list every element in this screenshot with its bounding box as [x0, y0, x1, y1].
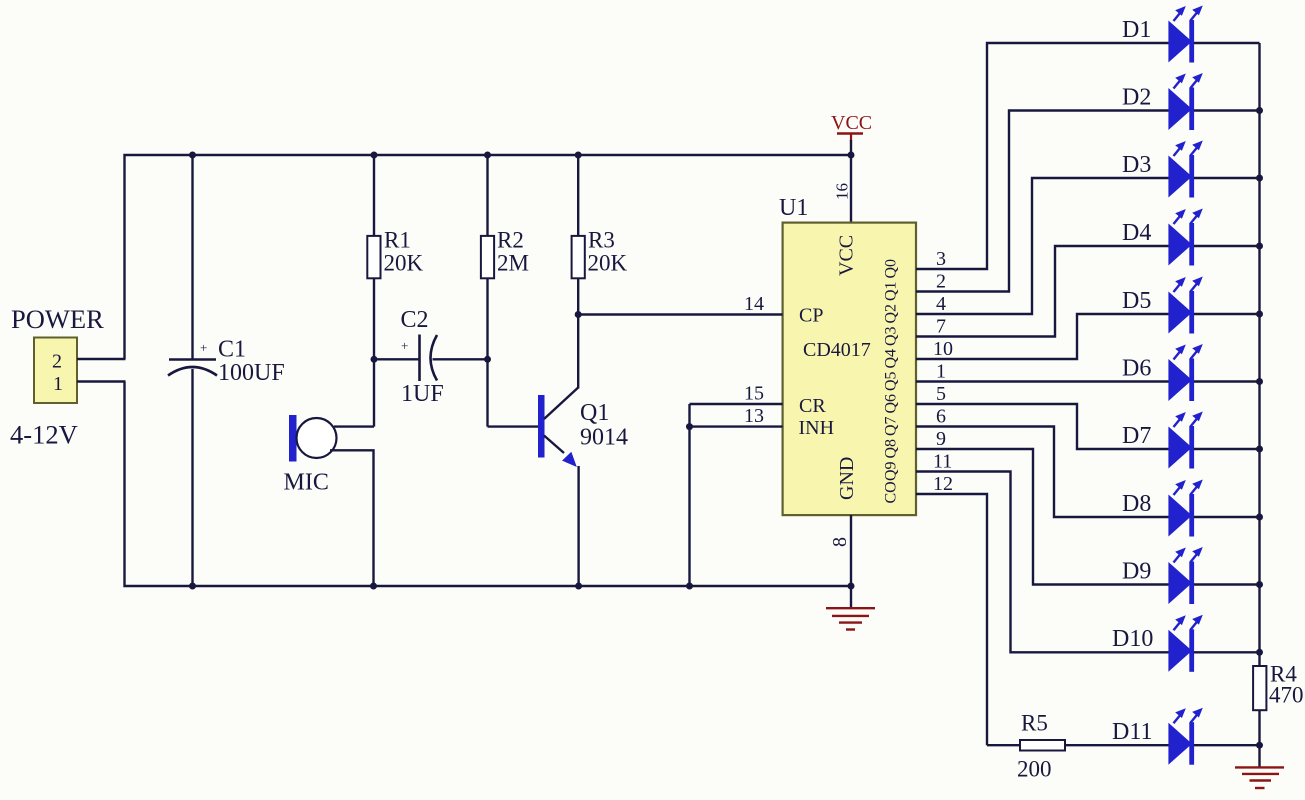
svg-text:12: 12 — [933, 473, 953, 495]
wire IC pin 3 to LED row — [916, 43, 1169, 269]
svg-text:3: 3 — [936, 248, 946, 270]
junction R3 / CP wire — [575, 311, 582, 318]
junction rail / D11 — [1256, 742, 1263, 749]
wire INH pin13 — [690, 425, 783, 427]
svg-text:R3: R3 — [588, 228, 615, 253]
svg-text:7: 7 — [936, 316, 946, 338]
svg-text:Q3: Q3 — [883, 326, 900, 346]
wire pin12 to R5 — [987, 744, 1021, 746]
wire C1 bottom lead — [191, 369, 193, 586]
svg-text:9014: 9014 — [580, 425, 628, 451]
LED D1 — [1168, 6, 1202, 63]
junction C2 right / R2 branch — [484, 356, 491, 363]
LED D6 — [1168, 344, 1202, 401]
wire IC pin 9 to LED row — [916, 449, 1169, 585]
junction ground rail / MIC — [370, 583, 377, 590]
capacitor C1 top plate — [169, 358, 216, 361]
wire D8 cathode to rail — [1194, 516, 1260, 518]
svg-text:C1: C1 — [218, 337, 246, 363]
svg-text:14: 14 — [744, 293, 764, 315]
IC U1 body — [783, 223, 916, 515]
wire POWER pin1 to ground rail — [77, 380, 126, 382]
svg-text:R5: R5 — [1021, 711, 1048, 736]
svg-text:D1: D1 — [1122, 17, 1151, 43]
wire IC pin 10 to LED row — [916, 314, 1169, 359]
junction top rail / R3 — [575, 152, 582, 159]
wire D9 cathode to rail — [1194, 583, 1260, 585]
wire IC pin 11 to LED row — [916, 472, 1169, 653]
LED D10 — [1168, 615, 1202, 672]
svg-text:4: 4 — [936, 293, 946, 315]
ground symbol at IC — [826, 608, 875, 629]
wire D4 cathode to rail — [1194, 245, 1260, 247]
wire CR/INH to ground rail — [688, 404, 690, 586]
svg-text:VCC: VCC — [831, 112, 872, 134]
svg-text:CP: CP — [799, 305, 823, 327]
wire MIC top lead — [334, 425, 374, 427]
wire D1 cathode to rail — [1194, 42, 1260, 44]
junction ground rail / CR-INH — [686, 583, 693, 590]
junction rail / D6 — [1256, 378, 1263, 385]
junction top rail / VCC — [848, 152, 855, 159]
svg-text:Q7: Q7 — [883, 416, 900, 436]
svg-text:D10: D10 — [1112, 626, 1153, 652]
capacitor C2 left plate — [418, 335, 421, 382]
svg-text:Q4: Q4 — [883, 349, 900, 369]
svg-text:D2: D2 — [1122, 84, 1151, 110]
svg-text:2: 2 — [52, 351, 62, 373]
svg-text:+: + — [401, 338, 408, 353]
transistor Q1 collector — [544, 388, 578, 420]
LED D11 — [1168, 708, 1202, 765]
resistor R5 body — [1020, 740, 1065, 751]
svg-text:D5: D5 — [1122, 288, 1151, 314]
power VCC bar — [837, 132, 863, 135]
wire Q1 base from R2 — [488, 425, 540, 427]
svg-text:GND: GND — [836, 457, 858, 500]
svg-text:13: 13 — [744, 405, 764, 427]
ground symbol bottom right — [1235, 767, 1284, 788]
svg-text:D8: D8 — [1122, 491, 1151, 517]
svg-text:D6: D6 — [1122, 355, 1151, 381]
resistor R4 body — [1253, 666, 1266, 710]
LED D3 — [1168, 141, 1202, 198]
wire MIC bottom lead — [330, 450, 374, 586]
junction top rail / C1 — [189, 152, 196, 159]
svg-text:Q9: Q9 — [883, 461, 900, 481]
LED D9 — [1168, 547, 1202, 604]
svg-text:CD4017: CD4017 — [803, 339, 871, 361]
wire D11 cathode to rail — [1194, 744, 1260, 746]
resistor R2 body — [481, 236, 494, 278]
wire LED common cathode rail — [1258, 43, 1260, 767]
svg-text:CR: CR — [799, 395, 826, 417]
junction rail / D8 — [1256, 514, 1263, 521]
svg-text:6: 6 — [936, 406, 946, 428]
wire IC pin 12 to LED row — [916, 494, 987, 745]
svg-text:11: 11 — [933, 451, 952, 473]
wire CR pin15 — [690, 403, 783, 405]
svg-text:Q6: Q6 — [883, 394, 900, 414]
junction C2 left / R1 branch — [371, 356, 378, 363]
svg-text:U1: U1 — [779, 195, 808, 221]
resistor R1 body — [367, 236, 380, 278]
svg-text:C2: C2 — [401, 307, 429, 333]
wire IC pin 7 to LED row — [916, 246, 1169, 337]
junction rail / D2 — [1256, 107, 1263, 114]
svg-text:POWER: POWER — [11, 304, 104, 334]
connector J1 POWER body — [34, 338, 77, 404]
junction ground rail / Q1 emitter — [575, 583, 582, 590]
wire C2 left lead — [374, 358, 420, 360]
svg-text:Q2: Q2 — [883, 304, 900, 324]
wire D2 cathode to rail — [1194, 109, 1260, 111]
svg-text:+: + — [200, 340, 207, 355]
wire R1 branch vertical — [373, 155, 375, 427]
LED D7 — [1168, 412, 1202, 469]
wire IC pin8 GND — [850, 515, 852, 608]
svg-text:15: 15 — [744, 383, 764, 405]
wire C1 top lead — [191, 155, 193, 360]
svg-text:INH: INH — [799, 417, 835, 439]
svg-text:2: 2 — [936, 271, 946, 293]
svg-text:D9: D9 — [1122, 558, 1151, 584]
wire R3 branch vertical — [577, 155, 579, 389]
svg-text:D7: D7 — [1122, 423, 1151, 449]
svg-text:R1: R1 — [384, 228, 411, 253]
wire D3 cathode to rail — [1194, 177, 1260, 179]
svg-text:20K: 20K — [588, 251, 628, 276]
svg-text:Q5: Q5 — [883, 371, 900, 391]
junction rail / D10 — [1256, 649, 1263, 656]
junction top rail / R2 — [484, 152, 491, 159]
svg-text:1UF: 1UF — [401, 381, 444, 407]
wire bottom ground rail — [125, 382, 852, 587]
wire R2 branch vertical — [486, 155, 488, 427]
transistor Q1 emitter arrowhead — [562, 452, 577, 467]
svg-text:5: 5 — [936, 383, 946, 405]
wire CP net from Q1 collector to pin14 — [578, 313, 782, 315]
wire Q1 emitter to ground rail — [577, 466, 579, 586]
wire POWER pin2 to VCC rail — [77, 358, 126, 360]
wire D7 cathode to rail — [1194, 448, 1260, 450]
wire D6 cathode to rail — [1194, 380, 1260, 382]
wire IC pin 6 to LED row — [916, 427, 1169, 518]
microphone MIC circle — [297, 418, 337, 458]
wire D10 cathode to rail — [1194, 651, 1260, 653]
microphone MIC bar — [289, 415, 297, 462]
wire R5 to LED D11 — [1065, 744, 1169, 746]
junction rail / D5 — [1256, 311, 1263, 318]
svg-text:20K: 20K — [384, 251, 424, 276]
resistor R3 body — [572, 236, 585, 278]
svg-text:MIC: MIC — [284, 470, 329, 496]
wire VCC to IC pin16 — [850, 140, 852, 223]
wire IC pin 1 to LED D6 — [916, 380, 1169, 382]
svg-text:1: 1 — [53, 373, 63, 395]
wire IC pin 4 to LED row — [916, 178, 1169, 314]
capacitor C2 curved plate — [431, 335, 438, 381]
svg-text:D11: D11 — [1112, 719, 1152, 745]
transistor Q1 base bar — [538, 395, 545, 458]
LED D8 — [1168, 480, 1202, 537]
wire IC pin 5 to LED row — [916, 404, 1169, 449]
svg-text:100UF: 100UF — [218, 360, 285, 386]
svg-text:470: 470 — [1269, 683, 1304, 708]
LED D4 — [1168, 209, 1202, 266]
transistor Q1 emitter — [544, 436, 564, 454]
svg-text:200: 200 — [1017, 757, 1052, 782]
LED D2 — [1168, 73, 1202, 130]
svg-text:D3: D3 — [1122, 152, 1151, 178]
svg-text:Q1: Q1 — [580, 400, 609, 426]
junction rail / D4 — [1256, 243, 1263, 250]
svg-text:8: 8 — [829, 537, 851, 547]
svg-text:16: 16 — [833, 183, 852, 200]
junction top rail / R1 — [371, 152, 378, 159]
svg-text:Q0: Q0 — [883, 259, 900, 279]
svg-text:CO: CO — [883, 481, 900, 503]
svg-text:R2: R2 — [497, 228, 524, 253]
svg-text:1: 1 — [936, 361, 946, 383]
junction rail / D9 — [1256, 581, 1263, 588]
svg-text:2M: 2M — [497, 251, 529, 276]
svg-text:D4: D4 — [1122, 220, 1151, 246]
junction rail / D7 — [1256, 446, 1263, 453]
wire C2 right lead — [433, 358, 488, 360]
wire VCC stub — [850, 134, 852, 142]
junction CR INH tie — [686, 423, 693, 430]
svg-text:VCC: VCC — [836, 235, 858, 276]
svg-text:9: 9 — [936, 428, 946, 450]
svg-text:4-12V: 4-12V — [10, 420, 78, 450]
wire IC pin 2 to LED row — [916, 111, 1169, 292]
wire D5 cathode to rail — [1194, 313, 1260, 315]
junction ground rail / IC pin8 — [848, 583, 855, 590]
junction ground rail / C1 — [189, 583, 196, 590]
capacitor C1 curved plate — [168, 367, 217, 376]
svg-text:Q8: Q8 — [883, 439, 900, 459]
junction rail / D3 — [1256, 175, 1263, 182]
LED D5 — [1168, 277, 1202, 334]
svg-text:10: 10 — [933, 338, 953, 360]
wire top VCC rail — [125, 155, 852, 359]
svg-text:Q1: Q1 — [883, 281, 900, 301]
